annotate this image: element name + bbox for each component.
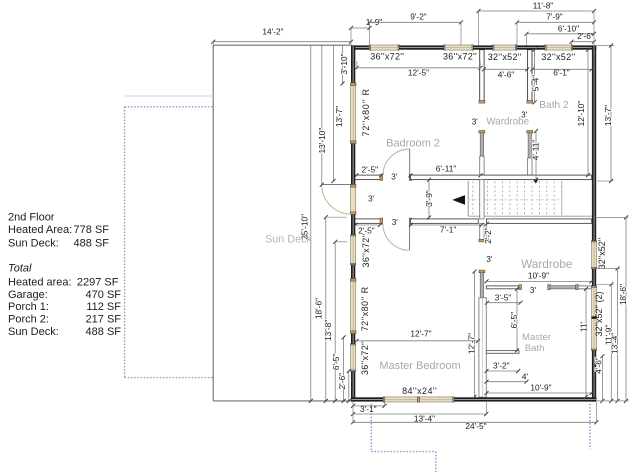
svg-text:10'-9": 10'-9" [528, 270, 549, 280]
svg-text:13'-7": 13'-7" [334, 106, 344, 127]
svg-text:2'-6": 2'-6" [337, 373, 347, 390]
svg-text:488 SF: 488 SF [86, 326, 122, 338]
dim 4-11 vertical [535, 131, 537, 180]
svg-text:72''x80'' R: 72''x80'' R [361, 88, 371, 136]
wardrobe2 west wall lower segment [480, 156, 484, 175]
svg-text:3': 3' [391, 171, 398, 181]
window 36x72 (left wall lower) [351, 344, 356, 371]
svg-text:2'-5": 2'-5" [362, 165, 379, 175]
svg-text:6'-5": 6'-5" [509, 312, 519, 329]
svg-text:2297 SF: 2297 SF [77, 276, 119, 288]
svg-text:12'-7": 12'-7" [410, 328, 431, 338]
dim 18-6 left [325, 217, 327, 401]
svg-text:Badroom 2: Badroom 2 [386, 138, 440, 150]
dim 11-9 [610, 284, 612, 401]
dim 24-5 [353, 421, 596, 423]
dim 13-10 [321, 45, 323, 185]
dim 7-9 [517, 21, 594, 23]
center wall door slab (pocket door) [479, 270, 485, 273]
top extension stubs [212, 42, 214, 46]
svg-text:Bath: Bath [525, 343, 545, 354]
hall south wall [354, 219, 381, 224]
svg-text:778 SF: 778 SF [74, 224, 110, 236]
bath2 west wall mid segment [527, 131, 533, 134]
dim 2-5 lower [356, 224, 381, 226]
door 72x80 R lower (left wall) [351, 279, 356, 333]
svg-text:4'-6": 4'-6" [594, 357, 604, 374]
svg-text:3'-2": 3'-2" [493, 360, 510, 370]
dim 13-4 bottom [353, 413, 486, 415]
svg-text:3': 3' [486, 254, 493, 264]
top wall [351, 45, 370, 49]
window 32x52 top-4 [545, 45, 572, 50]
stairs treads [472, 181, 474, 215]
dim 3-2 [487, 370, 519, 372]
svg-text:2'-2": 2'-2" [483, 227, 493, 244]
dim 11-8 [479, 10, 595, 12]
svg-text:6'-11": 6'-11" [436, 164, 457, 174]
svg-text:4'-6": 4'-6" [498, 70, 515, 80]
dim 12-7 horizontal [357, 340, 479, 342]
svg-text:Master Bedroom: Master Bedroom [379, 360, 460, 372]
master bath vanity wall [486, 351, 519, 354]
svg-text:1'-9": 1'-9" [366, 17, 383, 27]
dim 13-7 left [333, 45, 335, 181]
dim 6-5 vertical master bath [516, 289, 518, 351]
badroom2 door leaf and arc [409, 149, 411, 176]
svg-text:3'-10": 3'-10" [339, 53, 349, 74]
window 36x72 top-1 [370, 45, 400, 50]
svg-text:6'-5": 6'-5" [331, 354, 341, 371]
svg-text:7'-9": 7'-9" [546, 12, 563, 22]
svg-text:5'-4": 5'-4" [530, 75, 540, 92]
dim 14-2 [213, 41, 351, 43]
svg-text:470 SF: 470 SF [86, 289, 122, 301]
svg-text:Wardrobe: Wardrobe [521, 257, 573, 271]
svg-text:32''x52'': 32''x52'' [597, 238, 607, 270]
svg-text:7'-1": 7'-1" [440, 225, 457, 235]
bottom wall [351, 397, 384, 401]
stairs direction arrow [452, 195, 465, 205]
dim 12-10 vertical interior [587, 50, 589, 175]
svg-text:84''x24'': 84''x24'' [402, 386, 437, 396]
svg-text:Wardrobe: Wardrobe [486, 117, 529, 128]
dim 10-9 master bath [487, 392, 592, 394]
center wall lower thin segment [479, 298, 486, 397]
svg-text:36''x72'': 36''x72'' [443, 52, 477, 62]
stairs walk line [468, 199, 560, 201]
dim 10-9 wardrobe [487, 280, 592, 282]
svg-text:24'-5": 24'-5" [465, 421, 486, 431]
svg-text:12'-10": 12'-10" [576, 101, 586, 127]
dim 6-10 [527, 33, 595, 35]
svg-text:Bath 2: Bath 2 [539, 100, 569, 111]
window 84x24 (bottom wall) [384, 397, 454, 402]
bottom extension stubs [352, 402, 354, 422]
dim 3-10 [342, 45, 344, 83]
dim 1-9 [351, 27, 370, 29]
dashed deck rectangle (left) [125, 106, 214, 108]
svg-text:6'-10": 6'-10" [558, 23, 579, 33]
dim 35-10 [310, 45, 312, 401]
dim 6-1 [532, 68, 591, 70]
svg-text:3'-5": 3'-5" [495, 292, 512, 302]
svg-text:Porch 1:: Porch 1: [8, 301, 49, 313]
door 72x80 R upper (left wall) [351, 84, 356, 144]
dim 5-4 vertical [534, 50, 536, 103]
svg-text:3'-1": 3'-1" [360, 404, 377, 414]
svg-text:72''x80'' R: 72''x80'' R [360, 286, 370, 331]
svg-text:12'-7": 12'-7" [467, 333, 477, 354]
dim 12-5 [357, 67, 481, 69]
master wardrobe south wall door slab [548, 285, 551, 290]
dim 9-2 [370, 21, 462, 23]
right wall segments [592, 45, 596, 241]
dim 6-5 left [343, 337, 345, 401]
center wall below hall: 2-2 segment [480, 223, 484, 240]
svg-text:36''x72'': 36''x72'' [370, 52, 404, 62]
svg-text:3'-9": 3'-9" [424, 190, 434, 207]
dim 11ft vertical [585, 289, 587, 397]
dim 3-5 [487, 302, 521, 304]
stub top right [594, 45, 614, 47]
svg-text:3': 3' [472, 117, 479, 127]
svg-text:18'-6": 18'-6" [618, 284, 628, 305]
dim 7-1 [411, 224, 482, 226]
door 3ft to sun deck (left wall) [351, 185, 356, 214]
svg-text:13'-10": 13'-10" [317, 128, 327, 154]
svg-text:Master: Master [522, 332, 551, 343]
window 36x72 (left wall mid) [351, 235, 356, 265]
dim 4-6 right [601, 356, 603, 401]
svg-text:13'-7": 13'-7" [603, 105, 613, 126]
svg-text:9'-2": 9'-2" [410, 12, 427, 22]
dim 4ft [487, 381, 527, 383]
svg-text:11'-8": 11'-8" [533, 1, 554, 11]
dim 13-7 right [610, 46, 612, 182]
svg-text:Porch 2:: Porch 2: [8, 314, 49, 326]
dim 4-6 [484, 68, 527, 70]
svg-text:3': 3' [368, 194, 375, 204]
bath2 west wall lower segment [528, 158, 532, 175]
svg-text:14'-2": 14'-2" [262, 27, 283, 37]
master bedroom door leaf and arc [409, 224, 411, 251]
left wall segments [351, 45, 355, 83]
svg-text:Garage:: Garage: [8, 289, 48, 301]
svg-text:4'-11": 4'-11" [531, 140, 541, 161]
middle wall [354, 175, 381, 180]
svg-text:10'-9": 10'-9" [530, 382, 551, 392]
sun deck outline [213, 44, 351, 46]
dim 13-4 right [617, 269, 619, 401]
stairwell west wall [480, 180, 484, 219]
svg-text:18'-6": 18'-6" [313, 298, 323, 319]
wardrobe2 west wall upper segment [480, 50, 484, 101]
svg-text:Sun Deck:: Sun Deck: [8, 237, 59, 249]
svg-text:2nd Floor: 2nd Floor [8, 212, 55, 224]
master wardrobe south wall [486, 286, 519, 289]
svg-text:217 SF: 217 SF [86, 314, 122, 326]
svg-text:3': 3' [392, 217, 399, 227]
svg-text:Sun Deck: Sun Deck [265, 234, 312, 246]
svg-text:488 SF: 488 SF [74, 237, 110, 249]
window 32x52 (2) double (right wall) [592, 286, 597, 350]
stairs up tick [533, 180, 538, 184]
stairs edges [467, 181, 469, 216]
faint deck edge line [125, 95, 215, 97]
svg-text:11': 11' [579, 321, 589, 332]
dim 18-6 right [625, 217, 627, 401]
bath2 west wall upper segment [528, 50, 532, 101]
dim 12-7 vertical [474, 272, 476, 397]
svg-text:13'-4": 13'-4" [610, 333, 620, 354]
svg-text:6'-1": 6'-1" [553, 67, 570, 77]
window 32x52 top-3 [493, 45, 516, 50]
dim 2-6 top right [572, 41, 595, 43]
window 32x52 (right wall) [592, 241, 597, 269]
svg-text:13'-8": 13'-8" [323, 320, 333, 341]
dashed deck outline bottom-left [370, 404, 372, 452]
dim 13-8 left [334, 242, 336, 401]
dim 2-6 left [348, 371, 350, 401]
dim 3-1 [353, 405, 385, 407]
dim 2-2 vertical [486, 224, 488, 241]
svg-text:12'-5": 12'-5" [408, 67, 429, 77]
svg-text:32''x52'': 32''x52'' [541, 52, 575, 62]
svg-text:36''x72'': 36''x72'' [361, 233, 371, 267]
svg-text:3': 3' [530, 285, 537, 295]
svg-text:4': 4' [522, 371, 529, 381]
svg-text:36''x72'': 36''x72'' [360, 341, 370, 375]
svg-text:Sun Deck:: Sun Deck: [8, 326, 59, 338]
dashed deck outline bottom-right [589, 404, 591, 449]
svg-text:Heated area:: Heated area: [8, 276, 72, 288]
svg-text:32''x52'': 32''x52'' [488, 52, 522, 62]
window 36x72 top-2 [444, 45, 473, 50]
sun deck door leaf and arc [322, 184, 351, 186]
svg-text:Heated Area:: Heated Area: [8, 224, 72, 236]
svg-text:Total: Total [8, 263, 32, 275]
svg-text:112 SF: 112 SF [86, 301, 121, 313]
wardrobe2 west wall door slab [479, 131, 485, 134]
svg-text:2'-6": 2'-6" [577, 31, 594, 41]
dim 3-9 vertical [428, 180, 430, 218]
